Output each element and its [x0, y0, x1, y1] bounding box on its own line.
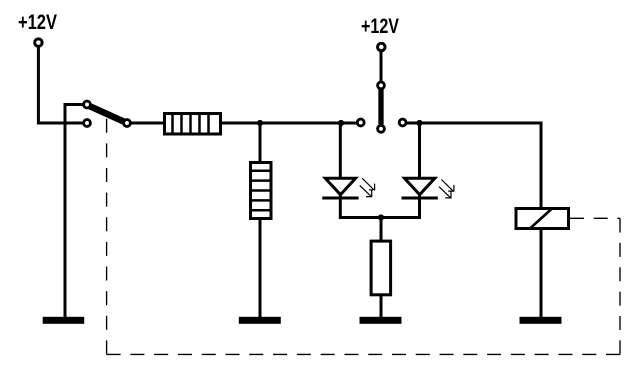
relay coil K1	[516, 208, 569, 229]
resistor R1 (horizontal, hatched)	[165, 113, 221, 134]
wire from S2 right contact to relay branch	[407, 122, 541, 125]
wire from left +12V terminal down and right to switch S1 lower throw	[38, 46, 83, 123]
wire from S1 upper throw left and down to ground	[65, 105, 83, 318]
wire from center +12V terminal down to switch S2	[380, 50, 383, 83]
svg-text:+12V: +12V	[361, 15, 399, 38]
junction node under LEDs	[378, 214, 384, 220]
ground (under relay)	[520, 317, 562, 324]
resistor R2 (vertical, hatched)	[250, 163, 272, 219]
wire R3 to ground	[380, 295, 383, 317]
wire LED D2 cathode down to bus	[418, 193, 421, 219]
wire bus from R1 to switch S2 left contact	[221, 122, 357, 125]
ground (left)	[43, 317, 84, 324]
wire bus under LEDs	[340, 216, 419, 219]
switch S1 (SPDT)	[84, 101, 131, 126]
wire from junction down to resistor R2	[259, 123, 262, 162]
dashed enclosure border	[107, 119, 620, 355]
wire LED D1 anode	[339, 123, 342, 179]
svg-text:+12V: +12V	[18, 11, 57, 34]
wire LED D1 cathode down to bus	[339, 193, 342, 219]
switch S2 (center-off lever between two contacts)	[357, 82, 406, 132]
wire relay coil to ground	[540, 229, 543, 317]
wire LED D2 anode	[418, 123, 421, 179]
LED D2	[402, 178, 454, 198]
ground (under R2)	[239, 317, 281, 324]
junction node at R1/R2	[257, 120, 263, 126]
junction node LED D1	[338, 120, 344, 126]
terminal +12V center	[378, 43, 386, 51]
junction node LED D2	[416, 120, 422, 126]
terminal +12V left	[35, 39, 43, 47]
resistor R3 (vertical, plain)	[371, 241, 391, 295]
wire relay branch down to coil	[540, 122, 543, 209]
wire junction to resistor R3	[380, 218, 383, 242]
ground (under R3)	[360, 317, 402, 324]
wire from S1 pole to resistor R1	[130, 122, 164, 125]
wire from R2 down to ground	[259, 219, 262, 317]
LED D1	[322, 178, 374, 198]
